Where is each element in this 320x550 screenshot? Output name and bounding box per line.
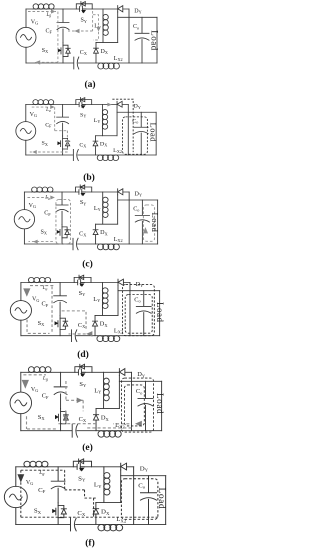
wire current path b: source top (32, 106, 49, 108)
arrow down Sx loop b (65, 140, 69, 144)
svg-text:Load: Load (154, 393, 164, 414)
arrow left bottom path c (33, 240, 38, 244)
wire output loop d: outer ring (123, 284, 155, 335)
svg-text:VG: VG (31, 20, 38, 26)
wire current path a: Lx1 loop (93, 15, 99, 40)
wire current path a: bottom return (41, 61, 58, 63)
arrow left bottom path b (32, 150, 36, 154)
arrow left bottom middle d (86, 331, 92, 337)
wire current path a: Sy to Cf branch (68, 11, 93, 31)
wire loop f: ring around Co (121, 479, 157, 520)
wire current path a: source top (28, 11, 56, 13)
wire current path c: ring around load (143, 205, 154, 241)
wire output loop d: inner ring around Co (125, 295, 152, 334)
wire current path b: down through Cf (55, 107, 68, 130)
wire current path d: down through source (26, 320, 28, 334)
wire current path d: bottom middle (69, 333, 91, 335)
arrow left mid path a (74, 29, 79, 33)
circuit instance d (10, 275, 159, 341)
svg-text:(f): (f) (85, 538, 95, 549)
arrow down Lx1 loop a (96, 27, 100, 32)
wire current path e: down through source (25, 416, 27, 429)
svg-text:(b): (b) (83, 172, 95, 183)
arrow right on top path b (50, 105, 54, 109)
wire output loop e: outer ring (121, 378, 153, 432)
wire current path c: bottom return (28, 241, 52, 243)
wire output loop b: from Sy over Dy (112, 99, 133, 152)
wire current path d: bottom from source (28, 332, 50, 334)
circuit instance b (16, 98, 156, 161)
svg-text:VG: VG (32, 297, 39, 303)
arrow down Sx loop e (63, 416, 69, 421)
wire current path c: source top (27, 196, 49, 198)
svg-text:VG: VG (26, 480, 33, 486)
wire current path d: left of Cf branch (51, 286, 53, 333)
arrow down on left loop f (17, 474, 24, 482)
arrow left bottom path a (35, 60, 40, 64)
wire current path d: over to Cx (62, 311, 86, 330)
wire current path e: Sx diode loop (65, 410, 67, 423)
svg-text:(e): (e) (82, 442, 93, 453)
arrow up on load ring c (143, 227, 148, 233)
arrow right to Cx e (77, 397, 83, 403)
arrow down into source e (22, 380, 29, 389)
circuit instance f (4, 459, 165, 531)
wire current path d: top toward source (30, 285, 55, 287)
wire loop f: Cf jog (65, 470, 96, 498)
circuit instance a (16, 2, 157, 69)
arrow down into source d (23, 288, 30, 296)
svg-text:VG: VG (29, 203, 36, 209)
wire output loop b: ring around Co (123, 117, 148, 154)
wire loop f: bottom across (21, 516, 158, 518)
wire current path b: through Sx diode (66, 131, 68, 152)
wire current path e: bottom from source (27, 428, 58, 430)
svg-text:Load: Load (149, 123, 159, 143)
svg-text:(d): (d) (77, 349, 89, 360)
wire current path e: bottom rail dashes (85, 424, 131, 428)
wire current path a: down left of Cf (57, 12, 59, 63)
svg-text:Load: Load (156, 488, 167, 510)
svg-text:(c): (c) (82, 259, 93, 270)
svg-text:Load: Load (155, 302, 165, 323)
wire loop f: top across (21, 469, 65, 471)
wire current path e: top toward source (23, 374, 46, 376)
svg-text:Load: Load (149, 30, 159, 51)
circuit instance e (10, 364, 162, 437)
svg-text:Load: Load (150, 213, 160, 233)
svg-text:VG: VG (30, 112, 37, 118)
wire loop f: left vertical (20, 470, 22, 517)
wire current path c: ring around Cf-Sx branch (56, 199, 71, 243)
arrow left on bottom near Co e (135, 421, 142, 427)
wire loop f: down at Dx (93, 498, 95, 517)
arrow right on top path c (50, 195, 55, 199)
arrow right on top path a (51, 9, 56, 13)
arrow right near Dy b (107, 103, 111, 107)
wire current path e: lower return (58, 423, 96, 425)
wire current path e: Sy down to Cx (66, 381, 83, 411)
svg-text:VG: VG (31, 387, 38, 393)
wire output loop e: inner ring around Co (124, 385, 144, 426)
svg-text:(a): (a) (84, 79, 95, 90)
circuit instance c (14, 185, 157, 250)
wire current path b: bottom return (30, 151, 68, 153)
